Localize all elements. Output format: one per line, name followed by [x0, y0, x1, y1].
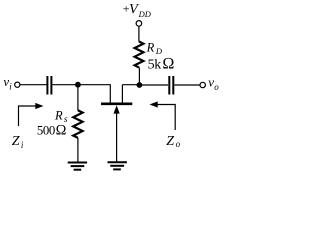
- label R_S: [54, 109, 68, 125]
- capacitor C1: [47, 76, 51, 95]
- svg-text:R: R: [146, 40, 155, 54]
- label R_D: [146, 40, 163, 56]
- wire C2 to terminal v_o: [174, 84, 200, 86]
- svg-text:Ω: Ω: [162, 55, 174, 72]
- wire node B to C2: [139, 84, 168, 86]
- node A junction dot: [75, 82, 81, 88]
- svg-text:500: 500: [37, 124, 55, 138]
- svg-text:k: k: [154, 57, 161, 72]
- label v_o: [208, 75, 219, 92]
- label v_i: [3, 74, 12, 91]
- node B junction dot: [137, 82, 143, 88]
- svg-text:Z: Z: [166, 134, 174, 149]
- svg-text:DD: DD: [138, 9, 152, 19]
- transistor Q1 gate arrow: [114, 105, 120, 161]
- ground (gate): [108, 162, 127, 169]
- label Z_o: [166, 134, 180, 149]
- terminal v_o: [200, 82, 205, 87]
- transistor Q1 channel bar: [101, 102, 132, 105]
- ground (R_S): [68, 163, 87, 170]
- wire R_S to ground: [77, 138, 79, 162]
- wire node A to R_S: [77, 85, 79, 111]
- svg-text:Ω: Ω: [56, 123, 67, 139]
- label 5k ohm: [148, 55, 175, 72]
- wire C1 to node A: [52, 84, 78, 86]
- svg-text:R: R: [54, 109, 63, 123]
- svg-text:o: o: [214, 82, 219, 92]
- terminal v_i: [15, 82, 20, 87]
- wire drain lead to node B: [122, 84, 139, 86]
- wire input terminal to C1: [20, 84, 47, 86]
- resistor R_S zigzag: [73, 110, 82, 138]
- resistor R_D zigzag: [135, 42, 144, 68]
- transistor Q1 drain lead: [121, 85, 123, 103]
- wire V_DD to R_D: [138, 26, 140, 41]
- svg-text:Z: Z: [12, 134, 20, 149]
- label 500 ohm: [37, 123, 67, 139]
- capacitor C2: [169, 76, 173, 95]
- Z_o arrow: [150, 101, 176, 130]
- label Z_i: [12, 134, 24, 150]
- wire node A to source lead: [78, 85, 110, 103]
- wire R_D to node B: [138, 68, 140, 86]
- Z_i arrow: [19, 103, 44, 126]
- supply +V_DD label: [123, 2, 152, 19]
- terminal +V_DD: [136, 21, 142, 27]
- svg-text:o: o: [176, 139, 181, 149]
